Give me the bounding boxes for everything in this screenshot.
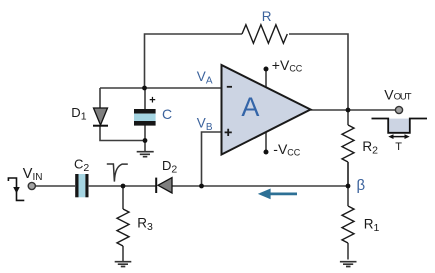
svg-text:R: R [262, 9, 272, 24]
svg-text:+: + [149, 94, 155, 106]
svg-text:C: C [162, 106, 172, 122]
svg-text:β: β [357, 177, 366, 194]
svg-text:T: T [395, 141, 402, 153]
svg-text:A: A [241, 92, 259, 122]
